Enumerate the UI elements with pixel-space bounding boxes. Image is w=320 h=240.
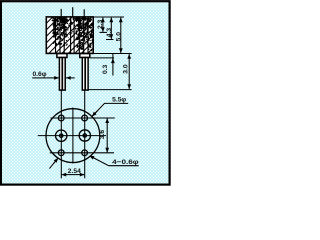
dim line 2.54 <box>62 174 66 176</box>
dim line 2.3 <box>102 21 104 29</box>
lead tip extension line <box>89 89 132 91</box>
center axis vertical <box>72 108 74 164</box>
body hatch <box>46 17 93 54</box>
svg-text:3.6: 3.6 <box>99 130 106 140</box>
svg-text:4−0.6φ: 4−0.6φ <box>112 159 139 166</box>
lead L1 tube <box>59 58 65 91</box>
stub above left lead <box>60 9 62 17</box>
background lattice <box>2 2 170 184</box>
svg-text:5.5φ: 5.5φ <box>112 97 126 104</box>
leader 4-0.6 <box>90 156 139 166</box>
svg-text:4.3: 4.3 <box>106 28 113 38</box>
lead L1 collar <box>57 54 67 58</box>
dim line 3.0 <box>128 58 130 86</box>
lead L2 tube <box>82 58 88 91</box>
dim line 4.3 <box>110 21 112 36</box>
border frame <box>1 1 170 184</box>
boss right pin <box>83 134 86 137</box>
top holes row line <box>51 117 115 119</box>
dim line 0.3 <box>112 54 114 76</box>
leader stub bottom-left <box>49 162 55 169</box>
lead L1 bore <box>61 58 63 90</box>
lead L2 collar <box>80 54 90 58</box>
svg-text:3.0: 3.0 <box>123 64 130 74</box>
bottom holes row line <box>50 152 114 154</box>
dim line 3.6 <box>106 122 108 150</box>
svg-text:2.54: 2.54 <box>68 168 81 175</box>
horizontal centerline <box>38 135 106 137</box>
boss right outer <box>79 130 90 141</box>
lead L2 bore <box>84 58 86 90</box>
bottom body extension line <box>93 53 131 55</box>
stub center axis top <box>72 7 74 17</box>
hole bottom-left <box>58 150 64 156</box>
leader 5.5 <box>92 103 128 116</box>
tick 4.3 <box>106 39 114 41</box>
collar extension line <box>91 57 115 59</box>
stub above right lead <box>83 9 85 17</box>
hole top-left <box>58 115 64 121</box>
boss left pin <box>60 134 63 137</box>
top extension line <box>93 16 124 18</box>
hole bottom-right <box>82 150 88 156</box>
winding scribble left <box>52 17 68 47</box>
body internal vertical lines <box>56 17 89 53</box>
projection line left <box>60 90 62 178</box>
winding scribble middle <box>68 18 76 38</box>
dim line 5.0 <box>120 21 122 50</box>
svg-text:5.0: 5.0 <box>116 32 123 42</box>
tick 2.3 <box>100 31 108 33</box>
winding scribble right <box>75 17 93 51</box>
dim 0.6 leader left arrow <box>32 77 47 79</box>
boss left outer <box>56 130 67 141</box>
bottom view can circle <box>46 109 100 163</box>
svg-text:0.3: 0.3 <box>102 64 109 74</box>
svg-text:0.6φ: 0.6φ <box>32 71 46 78</box>
hole top-right <box>82 115 88 121</box>
dim 0.6 right arrow <box>66 77 75 79</box>
svg-text:2.3: 2.3 <box>97 19 104 29</box>
body outline <box>46 17 93 54</box>
projection line right <box>84 90 86 178</box>
